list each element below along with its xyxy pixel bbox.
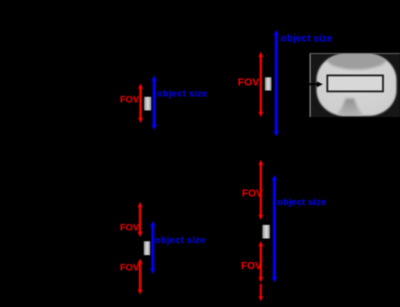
red FOV arrow (top-left) [138, 84, 143, 124]
svg-text:object size: object size [281, 34, 333, 45]
blue object-size arrow (bottom-left) [150, 221, 155, 274]
svg-text:FOV: FOV [120, 263, 140, 273]
svg-text:FOV: FOV [241, 261, 262, 272]
svg-text:FOV: FOV [120, 95, 140, 105]
object rectangle (bottom-right) [262, 225, 269, 239]
pointer arrow to ROI [299, 81, 323, 87]
phantom blob [317, 54, 397, 116]
stem notch at blob bottom [335, 99, 365, 118]
svg-text:object size: object size [157, 88, 208, 98]
svg-text:object size: object size [155, 235, 206, 245]
object rectangle (top-left) [144, 97, 151, 111]
red continuation arrow below (bottom-right) [258, 284, 263, 301]
svg-text:FOV: FOV [120, 223, 140, 233]
blue object-size arrow (top-left) [152, 76, 157, 131]
red FOV arrow upper (bottom-right) [258, 160, 263, 220]
blue object-size arrow (top-right) [274, 30, 279, 137]
svg-text:FOV: FOV [238, 78, 259, 89]
photo background [310, 53, 400, 117]
red FOV arrow upper (bottom-left) [138, 202, 143, 237]
object rectangle (top-right) [265, 77, 272, 90]
svg-text:object size: object size [277, 197, 326, 208]
red FOV arrow lower (bottom-right) [258, 241, 263, 283]
darker dome at blob top [327, 49, 387, 70]
red FOV arrow (top-right) [258, 52, 263, 117]
photo top edge line [310, 53, 400, 54]
photo left edge highlight [310, 53, 311, 117]
red FOV arrow lower (bottom-left) [138, 259, 143, 295]
ROI rectangle outline [327, 75, 383, 91]
ultrasound inset photo (top-right corner) [310, 49, 400, 118]
object rectangle (bottom-left) [144, 241, 150, 255]
blue object-size arrow (bottom-right) [272, 175, 277, 283]
svg-text:FOV: FOV [242, 188, 263, 199]
